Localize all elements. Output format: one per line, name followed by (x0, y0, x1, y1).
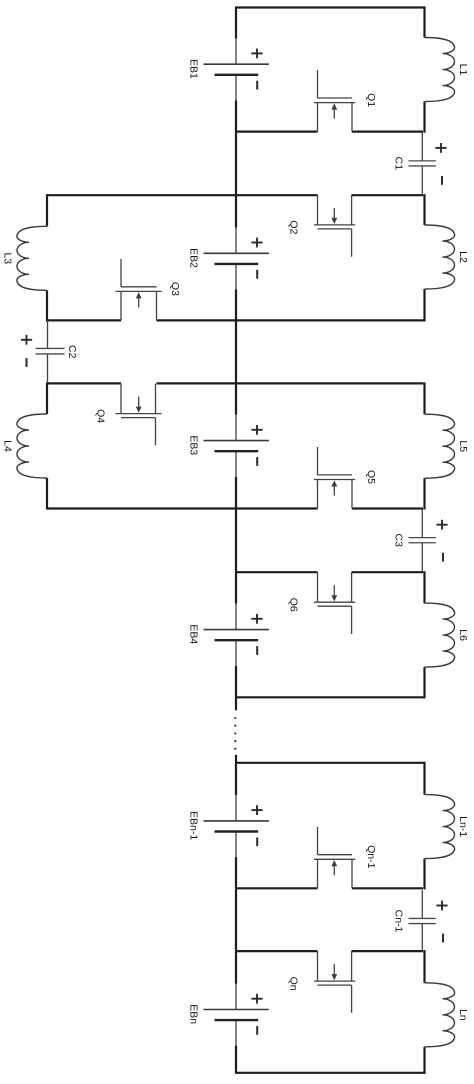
minus sign of EB3 (256, 457, 258, 466)
svg-text:L4: L4 (2, 440, 14, 452)
ellipsis continuation dots on bus (234, 717, 236, 750)
battery cell EB2 (204, 228, 269, 290)
wire right rail L2 leads (423, 194, 425, 321)
inductor Ln-1 (425, 795, 455, 859)
plus sign of C3 (436, 524, 447, 526)
capacitor C2 (36, 320, 65, 382)
wire right rail L5 leads (423, 382, 425, 509)
inductor Ln (425, 983, 455, 1047)
wire bottom of EBn cell (235, 1072, 426, 1074)
wire top of EBn-1 cell (235, 762, 426, 764)
battery cell EBn (204, 984, 269, 1046)
svg-text:Q1: Q1 (365, 93, 377, 107)
svg-text:Q2: Q2 (288, 220, 300, 234)
MOSFET Q2 (314, 195, 355, 257)
wire bottom of EB4 cell (235, 696, 426, 698)
wire top of EB1 cell (235, 6, 426, 8)
plus sign of EB1 (251, 52, 262, 54)
battery cell EB3 (204, 415, 269, 477)
inductor L2 (425, 225, 455, 289)
MOSFET Q5 (314, 447, 355, 509)
battery cell EB4 (204, 604, 269, 666)
minus sign of EB2 (256, 270, 258, 279)
svg-text:C3: C3 (392, 533, 404, 547)
MOSFET Q1 (314, 70, 355, 132)
svg-text:EB4: EB4 (187, 624, 199, 644)
minus sign of C1 (441, 176, 443, 185)
capacitor Cn-1 (409, 890, 436, 952)
wire Q6 row (235, 571, 423, 573)
inductor L6 (425, 603, 455, 667)
capacitor C3 (409, 509, 436, 571)
plus sign of EBn (251, 998, 262, 1000)
svg-text:Q5: Q5 (365, 470, 377, 484)
wire Q3 row (47, 319, 426, 321)
wire EB1/EB2 node row (Q1 row) (235, 131, 423, 133)
svg-text:C1: C1 (392, 157, 404, 171)
inductor L4 (17, 414, 47, 478)
wire Q4 row (47, 382, 423, 384)
svg-text:Q3: Q3 (169, 282, 181, 296)
MOSFET Qn (314, 951, 355, 1013)
svg-text:EB3: EB3 (187, 435, 199, 455)
svg-text:L2: L2 (457, 251, 469, 263)
minus sign of Cn-1 (442, 934, 444, 943)
svg-text:L1: L1 (457, 64, 469, 76)
svg-text:C2: C2 (66, 345, 78, 359)
svg-text:Qn: Qn (288, 977, 300, 991)
inductor L5 (425, 414, 455, 478)
svg-text:EBn: EBn (187, 1004, 199, 1024)
wire left rail L4 leads (46, 382, 48, 509)
inductor L1 (425, 38, 455, 102)
svg-text:EBn-1: EBn-1 (187, 811, 199, 840)
wire Qn row (235, 950, 423, 952)
svg-text:Q4: Q4 (94, 409, 106, 423)
wire Q2 row (47, 194, 423, 196)
svg-text:EB2: EB2 (187, 248, 199, 268)
wire Qn-1 row (235, 887, 423, 889)
wire main battery-string bus (235, 8, 237, 1073)
svg-text:L3: L3 (2, 252, 14, 264)
wire right rail Ln-1 leads (423, 762, 425, 890)
svg-text:L6: L6 (457, 629, 469, 641)
MOSFET Q4 (116, 384, 162, 446)
plus sign of EBn-1 (251, 809, 262, 811)
MOSFET Qn-1 (314, 827, 355, 889)
plus sign of EB4 (251, 618, 262, 620)
svg-text:Cn-1: Cn-1 (392, 910, 404, 933)
minus sign of EB1 (256, 81, 258, 90)
svg-text:EB1: EB1 (187, 59, 199, 79)
minus sign of C3 (442, 553, 444, 562)
wire right rail L1 leads (423, 7, 425, 133)
svg-text:Ln: Ln (457, 1009, 469, 1021)
inductor L3 (17, 226, 47, 290)
minus sign of C2 (26, 358, 28, 367)
wire right rail Ln leads (423, 950, 425, 1074)
battery cell EB1 (204, 38, 269, 100)
minus sign of EBn-1 (256, 837, 258, 846)
plus sign of C1 (435, 147, 446, 149)
plus sign of EB3 (251, 429, 262, 431)
minus sign of EBn (256, 1026, 258, 1035)
plus sign of C2 (21, 339, 32, 341)
wire left rail L3 leads (46, 194, 48, 321)
plus sign of Cn-1 (436, 905, 447, 907)
svg-text:Qn-1: Qn-1 (365, 845, 377, 869)
svg-text:L5: L5 (457, 440, 469, 452)
MOSFET Q3 (116, 259, 162, 321)
svg-text:Ln-1: Ln-1 (457, 816, 469, 837)
minus sign of EB4 (256, 646, 258, 655)
wire right rail L6 leads (423, 571, 425, 698)
plus sign of EB2 (251, 242, 262, 244)
battery cell EBn-1 (204, 795, 269, 857)
MOSFET Q6 (314, 572, 355, 634)
capacitor C1 (409, 132, 436, 194)
svg-text:Q6: Q6 (288, 598, 300, 612)
wire Q5 row (47, 507, 423, 509)
